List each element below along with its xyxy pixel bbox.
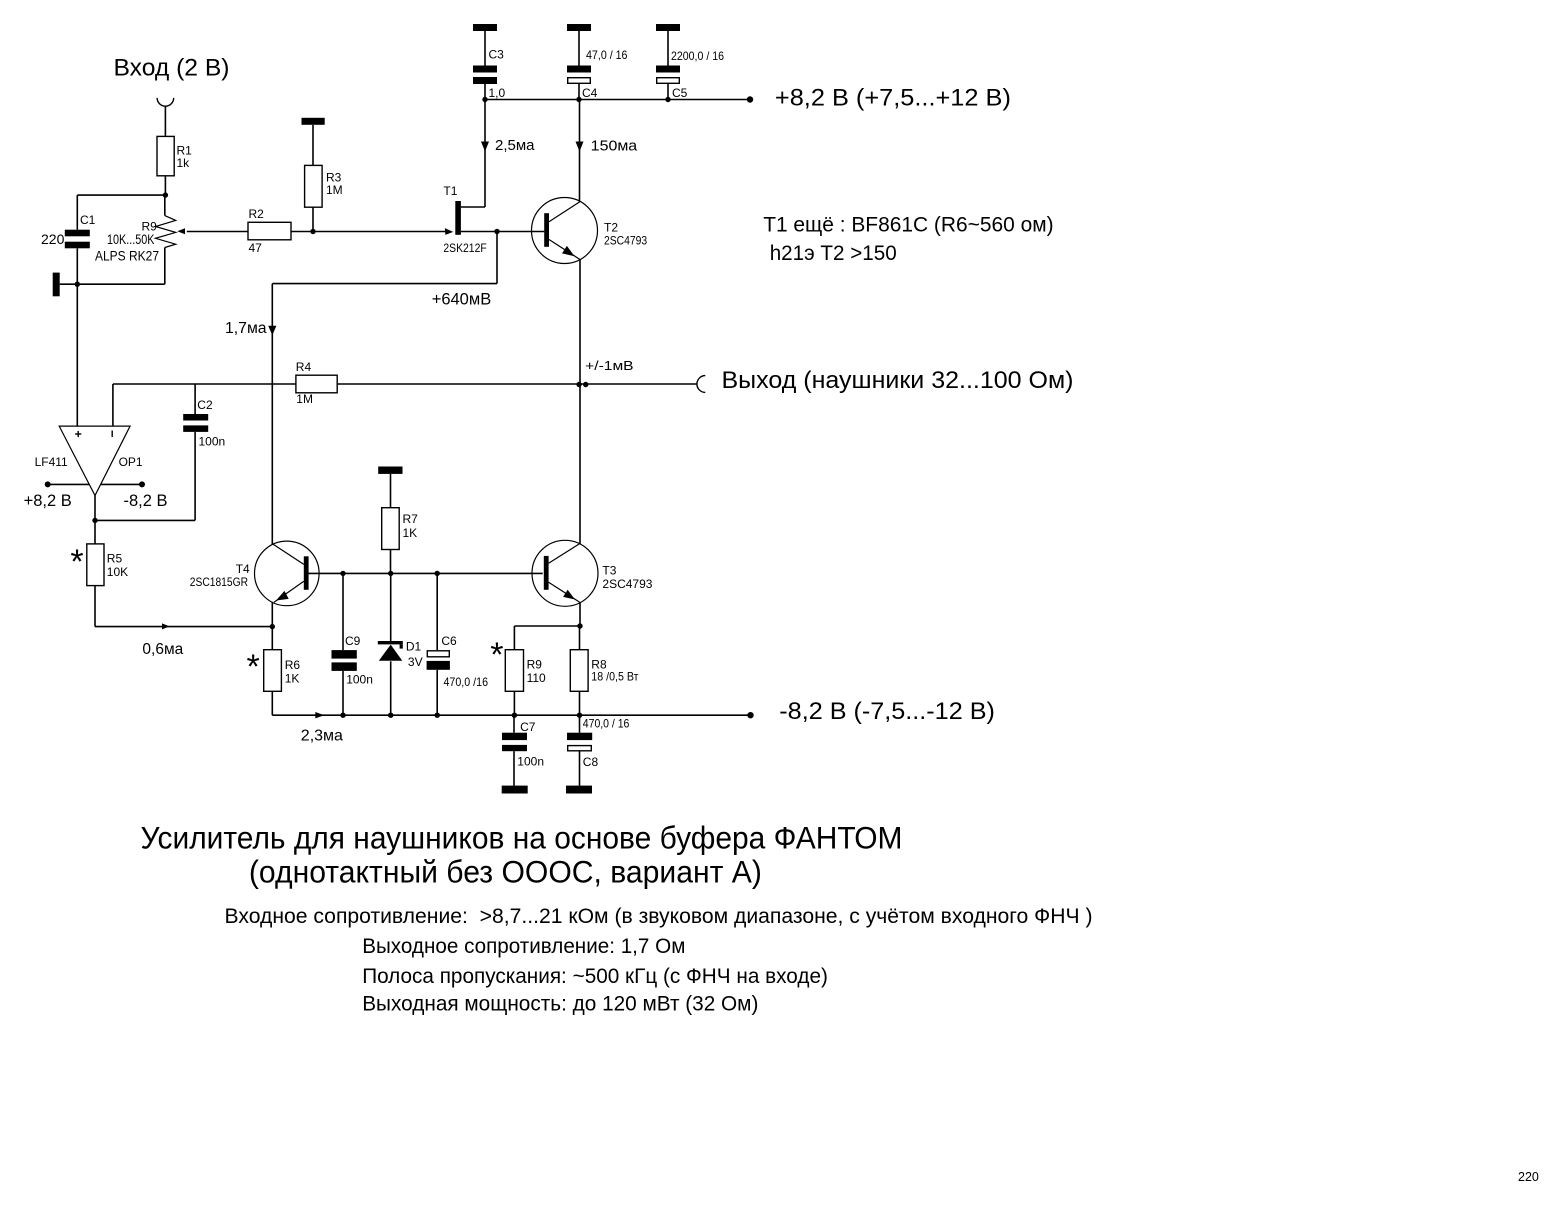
svg-text:*: * bbox=[490, 636, 503, 674]
wire bbox=[390, 661, 392, 715]
wire output rail left bbox=[113, 383, 296, 385]
ground (top of C3) bbox=[473, 24, 497, 31]
svg-text:C8: C8 bbox=[583, 755, 599, 769]
current arrow 150ма bbox=[576, 138, 638, 155]
wire bbox=[94, 520, 96, 544]
svg-text:C9: C9 bbox=[345, 634, 361, 648]
svg-text:10K: 10K bbox=[107, 565, 128, 579]
svg-text:T1 ещё : BF861C (R6~560 ом): T1 ещё : BF861C (R6~560 ом) bbox=[763, 213, 1053, 236]
svg-text:LF411: LF411 bbox=[35, 455, 68, 469]
svg-text:C5: C5 bbox=[672, 86, 688, 100]
svg-text:Усилитель для наушников на осн: Усилитель для наушников на основе буфера… bbox=[141, 821, 903, 856]
capacitor C8 bbox=[567, 716, 630, 768]
wire bbox=[76, 195, 78, 230]
svg-text:220: 220 bbox=[41, 231, 65, 247]
resistor R2 bbox=[248, 207, 291, 255]
svg-text:-8,2 В (-7,5...-12 В): -8,2 В (-7,5...-12 В) bbox=[779, 698, 995, 725]
resistor R5 bbox=[70, 543, 128, 585]
svg-text:T4: T4 bbox=[236, 562, 250, 576]
svg-text:T2: T2 bbox=[604, 221, 618, 235]
svg-text:Выходное сопротивление: 1,7 Ом: Выходное сопротивление: 1,7 Ом bbox=[362, 934, 685, 958]
node D1/rail junction bbox=[388, 713, 393, 718]
wire bbox=[164, 176, 166, 195]
wire T3 emitter bbox=[579, 602, 581, 626]
wire bbox=[194, 432, 196, 521]
ground (top of R3) bbox=[302, 118, 325, 125]
node C9/rail junction bbox=[340, 713, 345, 718]
svg-text:Входное сопротивление: >8,7..: Входное сопротивление: >8,7...21 кОм (в … bbox=[225, 904, 1093, 928]
wire -8,2V rail bbox=[272, 714, 750, 716]
node R9/rail junction bbox=[512, 713, 517, 718]
node R1/R9 junction bbox=[163, 192, 168, 197]
svg-text:+8,2 В: +8,2 В bbox=[24, 492, 72, 510]
svg-text:C1: C1 bbox=[80, 213, 96, 227]
wire bbox=[513, 626, 515, 650]
svg-text:h21э T2 >150: h21э T2 >150 bbox=[770, 242, 897, 265]
wire (drain feed, 2,5ma) bbox=[484, 100, 486, 208]
svg-text:47,0 / 16: 47,0 / 16 bbox=[586, 48, 628, 62]
svg-text:+/-1мВ: +/-1мВ bbox=[585, 359, 633, 373]
wire T4 collector (from +640мВ node) bbox=[271, 284, 273, 545]
note text T1/T2 bbox=[763, 213, 1053, 264]
wire (+ input) bbox=[76, 284, 78, 426]
svg-text:R2: R2 bbox=[249, 207, 265, 221]
potentiometer R9 bbox=[95, 195, 185, 263]
wire bbox=[513, 751, 515, 786]
svg-text:*: * bbox=[247, 648, 260, 686]
svg-text:1K: 1K bbox=[285, 672, 300, 686]
wire (T2 emitter to output rail) bbox=[579, 260, 581, 385]
wire bbox=[76, 248, 78, 284]
wire (collector feed, 150ma) bbox=[579, 100, 581, 202]
capacitor C4 bbox=[567, 48, 628, 100]
node C4/rail junction bbox=[576, 97, 581, 102]
wire bbox=[313, 231, 447, 233]
svg-text:C4: C4 bbox=[582, 86, 598, 100]
resistor R7 bbox=[382, 508, 418, 550]
wire bbox=[271, 691, 273, 715]
net label Выход bbox=[722, 367, 1074, 394]
wire bbox=[94, 586, 96, 627]
wire (- input) bbox=[112, 384, 114, 426]
wire bbox=[578, 84, 580, 100]
wire bbox=[187, 231, 248, 233]
svg-text:R6: R6 bbox=[285, 658, 301, 672]
wire (C2 to output rail) bbox=[194, 384, 196, 414]
wire bbox=[579, 691, 581, 715]
voltage label +640мВ bbox=[432, 291, 492, 309]
wire bbox=[514, 625, 580, 627]
net label Вход bbox=[114, 55, 230, 82]
node V- terminal bbox=[101, 481, 168, 510]
wire bbox=[513, 715, 515, 733]
net label +8,2 V bbox=[775, 85, 1011, 112]
capacitor C6 bbox=[427, 634, 489, 689]
ground (top of C5) bbox=[656, 24, 680, 31]
transistor T4 bbox=[190, 541, 319, 606]
svg-text:110: 110 bbox=[527, 671, 546, 685]
node -8,2V terminal bbox=[747, 712, 753, 718]
svg-text:1k: 1k bbox=[177, 156, 191, 170]
svg-text:1M: 1M bbox=[296, 392, 313, 406]
svg-text:1,7ма: 1,7ма bbox=[225, 320, 267, 337]
node ground junction bbox=[75, 282, 80, 287]
svg-text:R9: R9 bbox=[527, 658, 543, 672]
svg-text:100n: 100n bbox=[199, 435, 226, 449]
transistor T3 bbox=[532, 540, 653, 606]
svg-text:*: * bbox=[70, 543, 83, 581]
svg-text:+640мВ: +640мВ bbox=[432, 291, 492, 309]
resistor R3 bbox=[305, 165, 343, 207]
capacitor C9 bbox=[332, 634, 373, 687]
svg-text:3V: 3V bbox=[408, 655, 423, 669]
svg-text:C7: C7 bbox=[520, 720, 536, 734]
svg-text:1M: 1M bbox=[326, 183, 343, 197]
wire T4 base bbox=[308, 572, 343, 574]
svg-text:C3: C3 bbox=[489, 48, 505, 62]
wire bbox=[164, 106, 166, 136]
wire op-amp output bbox=[94, 496, 96, 521]
title text bbox=[141, 821, 903, 890]
svg-text:1,0: 1,0 bbox=[489, 86, 506, 100]
wire bbox=[496, 232, 498, 284]
wire bbox=[579, 715, 581, 733]
svg-text:(однотактный без ОООС, вариант: (однотактный без ОООС, вариант А) bbox=[249, 855, 762, 890]
node output junction bbox=[576, 382, 588, 387]
svg-text:2SC4793: 2SC4793 bbox=[604, 234, 647, 248]
svg-text:Полоса пропускания: ~500 кГц (: Полоса пропускания: ~500 кГц (с ФНЧ на в… bbox=[362, 964, 828, 988]
svg-text:T1: T1 bbox=[443, 184, 457, 198]
wire bbox=[95, 519, 195, 521]
svg-text:2SK212F: 2SK212F bbox=[443, 241, 486, 255]
capacitor C5 bbox=[656, 49, 724, 100]
input terminal bbox=[157, 98, 174, 106]
node +8,2V terminal bbox=[747, 96, 753, 102]
wire bbox=[390, 474, 392, 508]
ground (bottom of C8) bbox=[566, 786, 592, 794]
node T1 source junction bbox=[494, 229, 499, 234]
wire bbox=[312, 125, 314, 166]
resistor R6 bbox=[247, 648, 301, 691]
svg-text:100n: 100n bbox=[517, 754, 544, 768]
svg-text:R4: R4 bbox=[296, 360, 312, 374]
ground (top of R7) bbox=[378, 467, 402, 474]
svg-text:OP1: OP1 bbox=[119, 455, 143, 469]
resistor R1 bbox=[157, 136, 192, 175]
diode D1 bbox=[378, 640, 423, 670]
wire bbox=[578, 31, 580, 66]
wire bbox=[497, 231, 544, 233]
svg-text:100n: 100n bbox=[346, 673, 373, 687]
svg-text:T3: T3 bbox=[602, 564, 616, 578]
svg-text:470,0 /16: 470,0 /16 bbox=[444, 675, 489, 689]
svg-text:Вход (2 В): Вход (2 В) bbox=[114, 55, 230, 82]
svg-text:R5: R5 bbox=[107, 552, 123, 566]
transistor T1 bbox=[443, 184, 497, 255]
wire bbox=[513, 691, 515, 715]
wire bbox=[484, 84, 486, 100]
svg-text:47: 47 bbox=[249, 241, 263, 255]
svg-text:D1: D1 bbox=[406, 640, 422, 654]
wire bbox=[77, 283, 165, 285]
svg-text:10K...50K: 10K...50K bbox=[107, 232, 154, 247]
svg-text:ALPS RK27: ALPS RK27 bbox=[95, 249, 159, 264]
wire bbox=[271, 627, 273, 650]
wire bbox=[390, 550, 392, 574]
current arrow 2,5ма bbox=[481, 137, 535, 154]
wire base rail bbox=[343, 572, 543, 574]
wire T3 collector (to output rail) bbox=[579, 385, 581, 544]
svg-text:Выходная мощность: до 120 мВт: Выходная мощность: до 120 мВт (32 Ом) bbox=[362, 992, 758, 1016]
svg-text:220: 220 bbox=[1518, 1170, 1539, 1184]
svg-text:2,3ма: 2,3ма bbox=[301, 727, 343, 744]
svg-text:Выход (наушники 32...100 Ом): Выход (наушники 32...100 Ом) bbox=[722, 367, 1074, 394]
ground (top of C4) bbox=[567, 24, 591, 31]
wire bbox=[390, 573, 392, 641]
wire bbox=[579, 626, 581, 650]
ground (bottom of C7) bbox=[502, 786, 528, 794]
svg-text:2SC1815GR: 2SC1815GR bbox=[190, 575, 248, 589]
node R6 junction bbox=[270, 624, 275, 629]
resistor R8 bbox=[570, 650, 639, 692]
svg-text:2SC4793: 2SC4793 bbox=[602, 577, 652, 591]
svg-text:18 /0,5 Вт: 18 /0,5 Вт bbox=[591, 670, 639, 684]
node V+ terminal bbox=[24, 481, 90, 510]
wire bbox=[342, 573, 344, 650]
wire bbox=[342, 671, 344, 715]
wire bbox=[436, 670, 438, 715]
node R8/rail junction bbox=[577, 713, 582, 718]
resistor R4 bbox=[296, 360, 337, 406]
svg-text:470,0 / 16: 470,0 / 16 bbox=[583, 716, 630, 730]
svg-text:C2: C2 bbox=[197, 398, 213, 412]
wire bbox=[164, 248, 166, 285]
wire output rail right bbox=[337, 383, 697, 385]
svg-text:R7: R7 bbox=[403, 512, 419, 526]
wire 0,6ма bbox=[95, 623, 272, 658]
node output/R5 junction bbox=[92, 518, 97, 523]
capacitor C2 bbox=[183, 398, 225, 449]
wire bbox=[77, 194, 165, 196]
node C5/rail junction bbox=[665, 97, 670, 102]
capacitor C3 bbox=[473, 48, 506, 100]
wire bbox=[667, 84, 669, 100]
wire bbox=[667, 31, 669, 66]
resistor R9 (output) bbox=[490, 636, 546, 691]
wire bbox=[272, 283, 497, 285]
node C6 junction bbox=[435, 571, 440, 576]
svg-text:150ма: 150ма bbox=[591, 138, 638, 155]
wire bbox=[291, 231, 313, 233]
current arrow 2,3ма bbox=[301, 712, 343, 744]
svg-text:+8,2 В (+7,5...+12 В): +8,2 В (+7,5...+12 В) bbox=[775, 85, 1011, 112]
node R2/R3 junction bbox=[310, 229, 315, 234]
page number 220 bbox=[1518, 1170, 1539, 1184]
node T4 base junction bbox=[340, 571, 345, 576]
transistor T2 bbox=[532, 198, 648, 264]
node C3/rail junction bbox=[482, 97, 487, 102]
ground bbox=[53, 273, 78, 297]
wire T4 emitter bbox=[271, 602, 273, 627]
node R7/D1 junction bbox=[388, 571, 393, 576]
wire bbox=[484, 31, 486, 66]
output terminal bbox=[697, 376, 705, 393]
capacitor C1 bbox=[41, 213, 96, 248]
svg-text:-8,2 В: -8,2 В bbox=[124, 492, 168, 510]
current arrow 1,7ма bbox=[225, 320, 276, 337]
capacitor C7 bbox=[502, 720, 544, 768]
node C6/rail junction bbox=[435, 713, 440, 718]
svg-text:C6: C6 bbox=[441, 634, 457, 648]
svg-text:0,6ма: 0,6ма bbox=[142, 641, 183, 658]
svg-text:2200,0 / 16: 2200,0 / 16 bbox=[671, 49, 724, 63]
svg-text:1K: 1K bbox=[403, 526, 418, 540]
node T3 emitter junction bbox=[577, 623, 582, 628]
op-amp OP1 bbox=[35, 426, 143, 495]
wire bbox=[436, 573, 438, 650]
wire +8,2V rail bbox=[485, 99, 750, 101]
wire bbox=[312, 207, 314, 231]
specs text bbox=[225, 904, 1093, 1015]
net label -8,2 V bbox=[779, 698, 995, 725]
wire bbox=[579, 751, 581, 786]
svg-text:2,5ма: 2,5ма bbox=[495, 137, 535, 154]
voltage label +/-1мВ bbox=[585, 359, 633, 373]
